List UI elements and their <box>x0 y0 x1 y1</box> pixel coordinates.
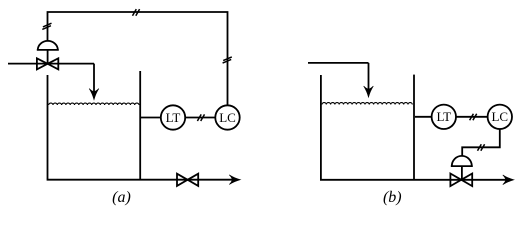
signal slash marks between LT and LC, fig b <box>470 114 477 121</box>
wire: tank bottom and outflow line, fig a <box>47 179 232 181</box>
arrowhead (outflow, right), fig a <box>229 175 240 185</box>
instrument bubble LC, fig b <box>488 105 512 129</box>
actuator diaphragm (dome) of control valve, fig b <box>451 156 473 166</box>
wire: inlet pipe, fig a <box>8 63 94 65</box>
wire: tank to LT, fig b <box>415 116 432 118</box>
wire: signal line from valve actuator up, across top, down to LC <box>48 12 228 105</box>
svg-text:(a): (a) <box>112 189 131 206</box>
arrowhead (inlet, down), fig a <box>89 89 99 100</box>
signal slash marks on left vertical signal wire <box>42 23 51 29</box>
tank right wall, fig a <box>139 71 141 180</box>
valve stem, fig a <box>47 50 49 64</box>
liquid level wavy line, fig b <box>322 103 412 105</box>
wire: inlet pipe, fig b <box>308 62 369 64</box>
valve stem, fig b <box>461 166 463 180</box>
svg-text:LT: LT <box>436 109 451 124</box>
tank left wall, fig b <box>320 75 322 180</box>
manual valve on outflow (bowtie), fig a <box>177 174 188 186</box>
arrowhead (outflow, right), fig b <box>503 175 514 185</box>
wire: inlet drop into tank, fig a <box>93 64 95 92</box>
wire: LT to LC, fig b <box>456 116 488 118</box>
wire: tank bottom and outflow line, fig b <box>320 179 506 181</box>
svg-text:(b): (b) <box>383 189 402 206</box>
liquid level wavy line, fig a <box>49 103 139 105</box>
tank left wall, fig a <box>47 75 49 179</box>
signal slash marks on top horizontal signal wire <box>133 9 140 16</box>
wire: tank to LT, fig a <box>141 117 161 119</box>
wire: signal LC down-left to control valve actuator, fig b <box>462 129 500 157</box>
signal slash marks on right vertical signal wire <box>223 57 232 63</box>
control valve body (bowtie), fig b <box>450 174 461 187</box>
svg-text:LT: LT <box>166 110 181 125</box>
control valve body (bowtie), fig a <box>37 58 48 69</box>
wire: inlet drop into tank, fig b <box>368 63 370 90</box>
svg-text:LC: LC <box>219 110 236 125</box>
arrowhead (inlet, down), fig b <box>364 86 374 97</box>
instrument bubble LC, fig a <box>215 105 239 129</box>
signal slash marks on LC-to-valve wire, fig b <box>478 144 485 151</box>
wire: LT to LC, fig a <box>185 117 215 119</box>
instrument bubble LT, fig b <box>432 105 456 129</box>
actuator diaphragm (dome) of control valve, fig a <box>37 41 59 50</box>
svg-text:LC: LC <box>491 109 508 124</box>
instrument bubble LT, fig a <box>161 105 185 129</box>
signal slash marks between LT and LC, fig a <box>197 114 204 121</box>
tank right wall, fig b <box>413 75 415 180</box>
